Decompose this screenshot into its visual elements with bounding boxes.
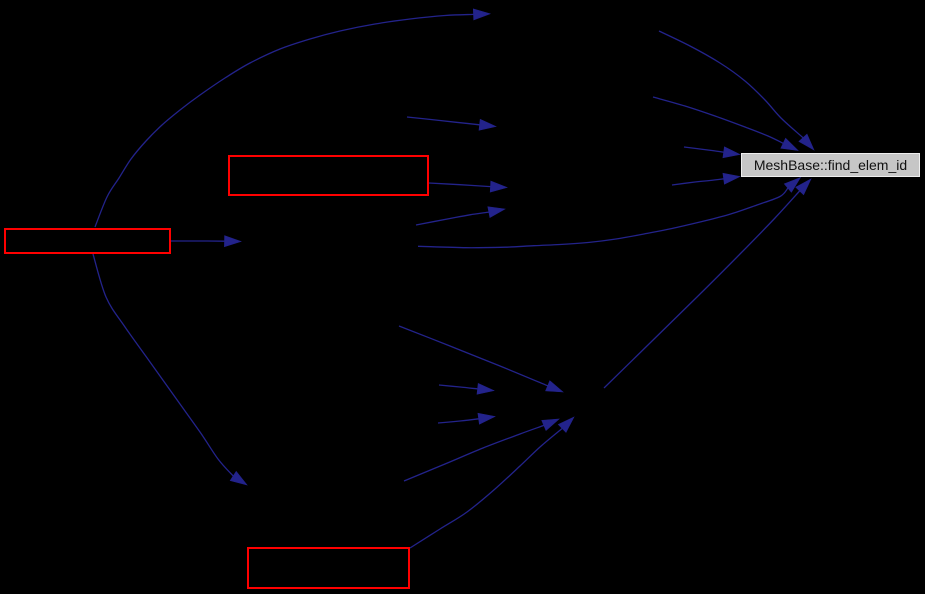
node B3 (red box, caller): [247, 547, 410, 589]
node B1 (red box, caller): [4, 228, 171, 254]
edge E->findelemid: [604, 179, 811, 388]
edge B1->C: [171, 236, 241, 247]
edge C->findelemid: [418, 178, 801, 248]
edge A->findelemid: [659, 31, 814, 150]
edge I4->E: [438, 413, 495, 424]
edge D->E: [404, 419, 559, 481]
edge C->G: [416, 207, 505, 225]
node B2 (red box, caller): [228, 155, 429, 196]
edge N2->findelemid: [653, 97, 798, 151]
edge B3->E: [410, 417, 574, 548]
edge B1->A: [95, 9, 490, 227]
edge G->findelemid: [672, 173, 740, 185]
edge H->findelemid: [684, 147, 740, 158]
edge I3->E: [439, 383, 494, 394]
edge B1->D: [93, 254, 247, 485]
edge B2->G: [429, 181, 507, 192]
edge I2->E: [399, 326, 563, 392]
edge I1->H: [407, 117, 496, 130]
node MeshBase::find_elem_id (current node, gray): [741, 153, 920, 177]
